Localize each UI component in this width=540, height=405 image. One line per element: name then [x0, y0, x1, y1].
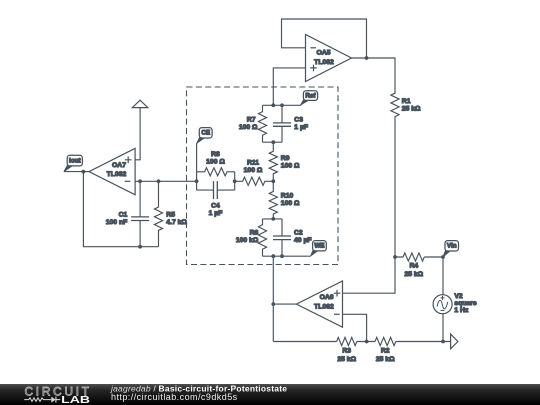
wire OA5 output to R1 [352, 58, 396, 93]
wire R8/C4 right bar [234, 172, 236, 190]
wire WE bottom bar [263, 255, 311, 257]
CircuitLab logo [24, 385, 90, 405]
wire R8/C4 left bar [196, 172, 198, 190]
wire R3 to R2 [357, 341, 375, 343]
capacitor C1 [106, 181, 149, 246]
wire OA7 output / Iout [64, 171, 89, 173]
resistor R10 [269, 181, 300, 219]
capacitor C2 [273, 219, 312, 256]
junction R7/C3 to R9 [271, 140, 275, 144]
junction R3/R2/OA6 inverting [365, 340, 369, 344]
wire OA5 noninverting input to Ref node [273, 68, 305, 105]
op-amp OA7 [89, 148, 135, 194]
junction R5 top [157, 179, 161, 183]
flag Ref [301, 91, 318, 105]
junction R6/C2 top [271, 217, 275, 221]
junction Iout [82, 170, 86, 174]
wire OA7 feedback bottom [83, 172, 158, 247]
resistor R4 [395, 253, 424, 278]
resistor R7 [239, 105, 267, 142]
junction C1 top [138, 179, 142, 183]
junction C1 bottom [138, 245, 142, 249]
junction OA5 output [365, 56, 369, 60]
wire Vin node to V2 [442, 257, 444, 295]
voltage source V2 [433, 293, 477, 314]
junction R11/R9/R10 [271, 179, 275, 183]
wire OA5 feedback loop [282, 19, 367, 58]
op-amp OA6 [296, 281, 342, 327]
wire WE node down to OA6 output [272, 256, 274, 341]
wire OA6 inverting feedback [343, 314, 367, 341]
junction WE column [271, 254, 275, 258]
junction Vin [441, 255, 445, 259]
flag CE [197, 128, 212, 144]
wire main net OA7 inverting to R8 [135, 180, 197, 182]
wire OA6 output to column [273, 303, 296, 305]
op-amp OA5 [306, 35, 352, 82]
resistor R8 [197, 151, 235, 176]
ground (top, rotated) [132, 100, 148, 107]
junction C2 bottom [280, 254, 284, 258]
flag Iout [64, 155, 82, 171]
wire OA7 noninverting to top node [135, 108, 140, 160]
junction OA6 output [271, 302, 275, 306]
ground (right, rotated) [451, 334, 458, 349]
wire bottom net [273, 341, 336, 343]
wire R7/C3 bottom bar [263, 141, 283, 143]
dashed box (cell model) [187, 87, 339, 265]
wire R6/C2 top bar [263, 218, 283, 220]
footer bar [0, 384, 540, 405]
svg-text:http://circuitlab.com/c9dkd5s: http://circuitlab.com/c9dkd5s [111, 392, 238, 402]
wire CE to R8 [196, 143, 198, 172]
wire R4 to Vin node [424, 256, 443, 258]
wire R2 to ground [396, 341, 451, 343]
resistor R9 [269, 142, 300, 181]
wire V2 to bottom net [442, 314, 444, 342]
flag Vin [443, 241, 458, 257]
svg-text:LAB: LAB [61, 395, 90, 405]
wire R1 to R4 node [394, 117, 396, 257]
resistor R11 [235, 159, 274, 185]
junction V2 bottom [441, 340, 445, 344]
resistor R5 [154, 181, 187, 246]
capacitor C4 [197, 181, 235, 217]
junction R8 right [233, 179, 237, 183]
resistor R2 [375, 337, 396, 363]
resistor R6 [236, 219, 267, 256]
junction R1/R4 [393, 255, 397, 259]
resistor R1 [391, 93, 421, 117]
node Ref bar [263, 104, 301, 106]
junction R8 left [195, 179, 199, 183]
flag WE [311, 241, 327, 256]
junction Ref column [271, 103, 275, 107]
resistor R3 [337, 337, 357, 363]
capacitor C3 [273, 105, 308, 142]
footer title [110, 384, 287, 402]
wire OA6 noninverting to R4 node [343, 257, 396, 293]
junction C3 top [280, 103, 284, 107]
